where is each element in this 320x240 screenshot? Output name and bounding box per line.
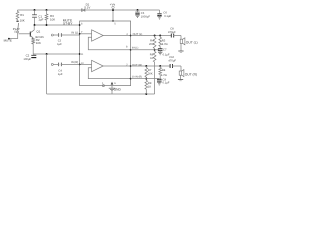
svg-text:5: 5	[114, 23, 116, 26]
svg-text:C2: C2	[26, 53, 30, 57]
svg-text:IN (L): IN (L)	[71, 31, 78, 34]
svg-text:1µF: 1µF	[58, 73, 63, 76]
svg-text:470µF: 470µF	[168, 60, 176, 63]
svg-text:C7: C7	[163, 48, 167, 51]
svg-text:10K: 10K	[36, 41, 41, 45]
svg-text:MUTE: MUTE	[4, 39, 12, 43]
svg-text:Q1: Q1	[36, 30, 40, 34]
svg-text:5.1V: 5.1V	[84, 6, 90, 10]
svg-text:C6: C6	[163, 12, 167, 15]
svg-text:OUT (R): OUT (R)	[185, 72, 197, 76]
svg-text:100µF: 100µF	[23, 58, 31, 61]
svg-text:GND: GND	[114, 88, 122, 92]
svg-text:8: 8	[126, 46, 128, 49]
svg-text:R1: R1	[20, 13, 24, 17]
svg-text:ST-BY: ST-BY	[63, 22, 73, 26]
svg-text:20K: 20K	[149, 43, 154, 46]
svg-text:1µF: 1µF	[38, 17, 43, 21]
svg-text:10 IN-(R): 10 IN-(R)	[132, 76, 142, 79]
svg-text:0.1µF: 0.1µF	[164, 15, 171, 18]
svg-text:6: 6	[114, 82, 116, 85]
svg-text:IN (R): IN (R)	[71, 61, 78, 64]
svg-text:R5: R5	[162, 39, 166, 42]
svg-text:4.7Ω: 4.7Ω	[162, 43, 168, 46]
svg-text:10K: 10K	[20, 18, 25, 22]
svg-text:0.1µF: 0.1µF	[163, 82, 170, 85]
svg-text:C10: C10	[169, 56, 174, 59]
svg-text:S1: S1	[14, 31, 18, 34]
svg-text:6: 6	[81, 23, 83, 26]
svg-text:1000µF: 1000µF	[141, 16, 151, 19]
svg-text:4.7Ω: 4.7Ω	[161, 74, 167, 77]
svg-text:OUT (L): OUT (L)	[186, 40, 198, 44]
svg-text:470µF: 470µF	[168, 31, 176, 34]
svg-text:20K: 20K	[148, 72, 153, 75]
svg-text:1µF: 1µF	[57, 43, 62, 46]
svg-text:11: 11	[81, 53, 84, 56]
svg-text:R8: R8	[162, 69, 166, 72]
svg-text:1K: 1K	[148, 85, 151, 88]
svg-text:IN-(L): IN-(L)	[132, 46, 139, 49]
svg-text:1K: 1K	[150, 57, 153, 60]
svg-text:10K: 10K	[50, 17, 55, 21]
